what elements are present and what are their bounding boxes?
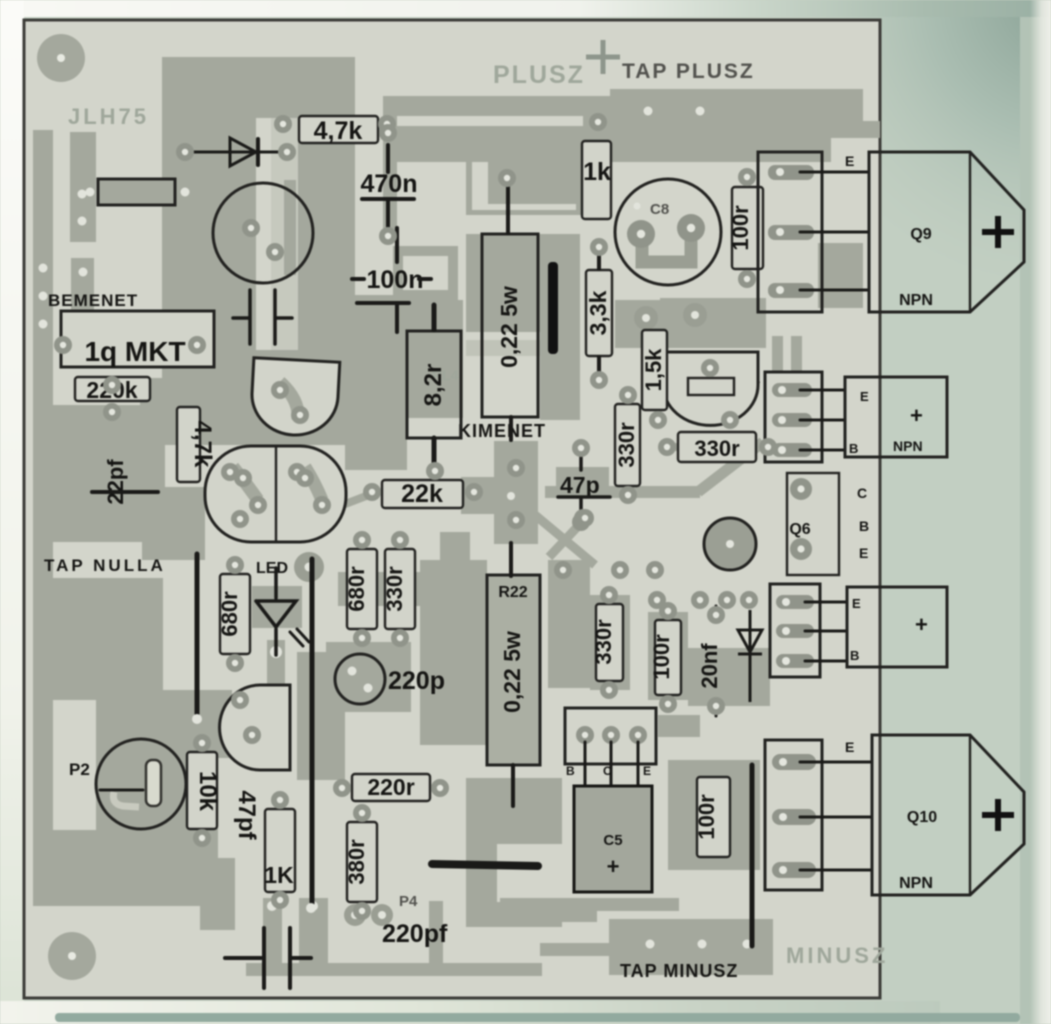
svg-text:PLUSZ: PLUSZ [493,61,585,89]
svg-text:E: E [643,764,651,778]
svg-text:0,22 5w: 0,22 5w [499,631,525,713]
svg-text:8,2r: 8,2r [420,364,447,407]
svg-text:C: C [857,485,867,501]
svg-text:220p: 220p [388,667,445,695]
svg-text:E: E [845,739,854,755]
svg-text:B: B [859,518,869,534]
svg-text:BEMENET: BEMENET [48,291,138,310]
svg-text:20nf: 20nf [697,643,722,689]
svg-text:+: + [915,612,928,637]
svg-text:1,5k: 1,5k [641,348,666,392]
svg-text:E: E [860,389,869,404]
svg-text:P2: P2 [69,760,90,779]
svg-text:C8: C8 [650,201,669,218]
svg-text:E: E [852,596,861,611]
svg-text:C5: C5 [603,832,622,849]
svg-text:3,3k: 3,3k [585,290,611,335]
svg-text:1K: 1K [264,862,294,888]
svg-text:100n: 100n [367,266,424,294]
svg-text:Q10: Q10 [907,809,937,826]
svg-text:680r: 680r [344,566,369,612]
svg-text:LED: LED [256,560,288,577]
svg-text:NPN: NPN [893,438,923,454]
svg-text:10k: 10k [194,771,221,812]
svg-text:47pf: 47pf [233,790,260,840]
svg-text:KIMENET: KIMENET [458,421,546,441]
svg-text:100r: 100r [728,205,753,251]
svg-text:E: E [845,153,854,169]
svg-text:R22: R22 [498,584,527,601]
svg-text:47p: 47p [560,472,600,498]
svg-text:0,22 5w: 0,22 5w [496,286,522,368]
svg-text:TAP MINUSZ: TAP MINUSZ [620,961,738,981]
svg-text:1q MKT: 1q MKT [84,336,185,367]
svg-text:380r: 380r [344,839,369,885]
svg-text:100r: 100r [694,794,719,840]
svg-text:MINUSZ: MINUSZ [786,943,888,968]
svg-text:1k: 1k [583,158,611,186]
svg-text:470n: 470n [361,170,418,198]
svg-text:TAP PLUSZ: TAP PLUSZ [622,60,755,83]
svg-text:4,7k: 4,7k [314,117,363,145]
svg-text:220pf: 220pf [382,920,448,948]
svg-text:P4: P4 [399,893,418,910]
svg-text:22pf: 22pf [103,459,128,505]
svg-text:B: B [850,648,859,663]
svg-text:JLH75: JLH75 [68,104,149,129]
svg-text:+: + [607,854,620,879]
svg-text:NPN: NPN [899,875,933,892]
svg-text:E: E [859,545,868,561]
svg-text:B: B [849,441,858,456]
svg-text:680r: 680r [217,591,242,637]
svg-text:330r: 330r [382,566,407,612]
svg-text:B: B [566,764,575,778]
svg-text:4,7k: 4,7k [189,421,216,468]
svg-text:330r: 330r [591,619,616,665]
svg-text:330r: 330r [694,436,740,461]
svg-text:NPN: NPN [899,292,933,309]
svg-text:22k: 22k [401,480,443,508]
svg-text:C: C [603,764,612,778]
svg-text:100r: 100r [649,634,674,680]
svg-text:Q9: Q9 [910,226,931,243]
svg-text:+: + [910,403,923,428]
svg-text:Q6: Q6 [789,521,810,538]
svg-text:220r: 220r [367,774,414,800]
svg-text:330r: 330r [614,422,639,468]
svg-text:TAP NULLA: TAP NULLA [44,556,166,575]
